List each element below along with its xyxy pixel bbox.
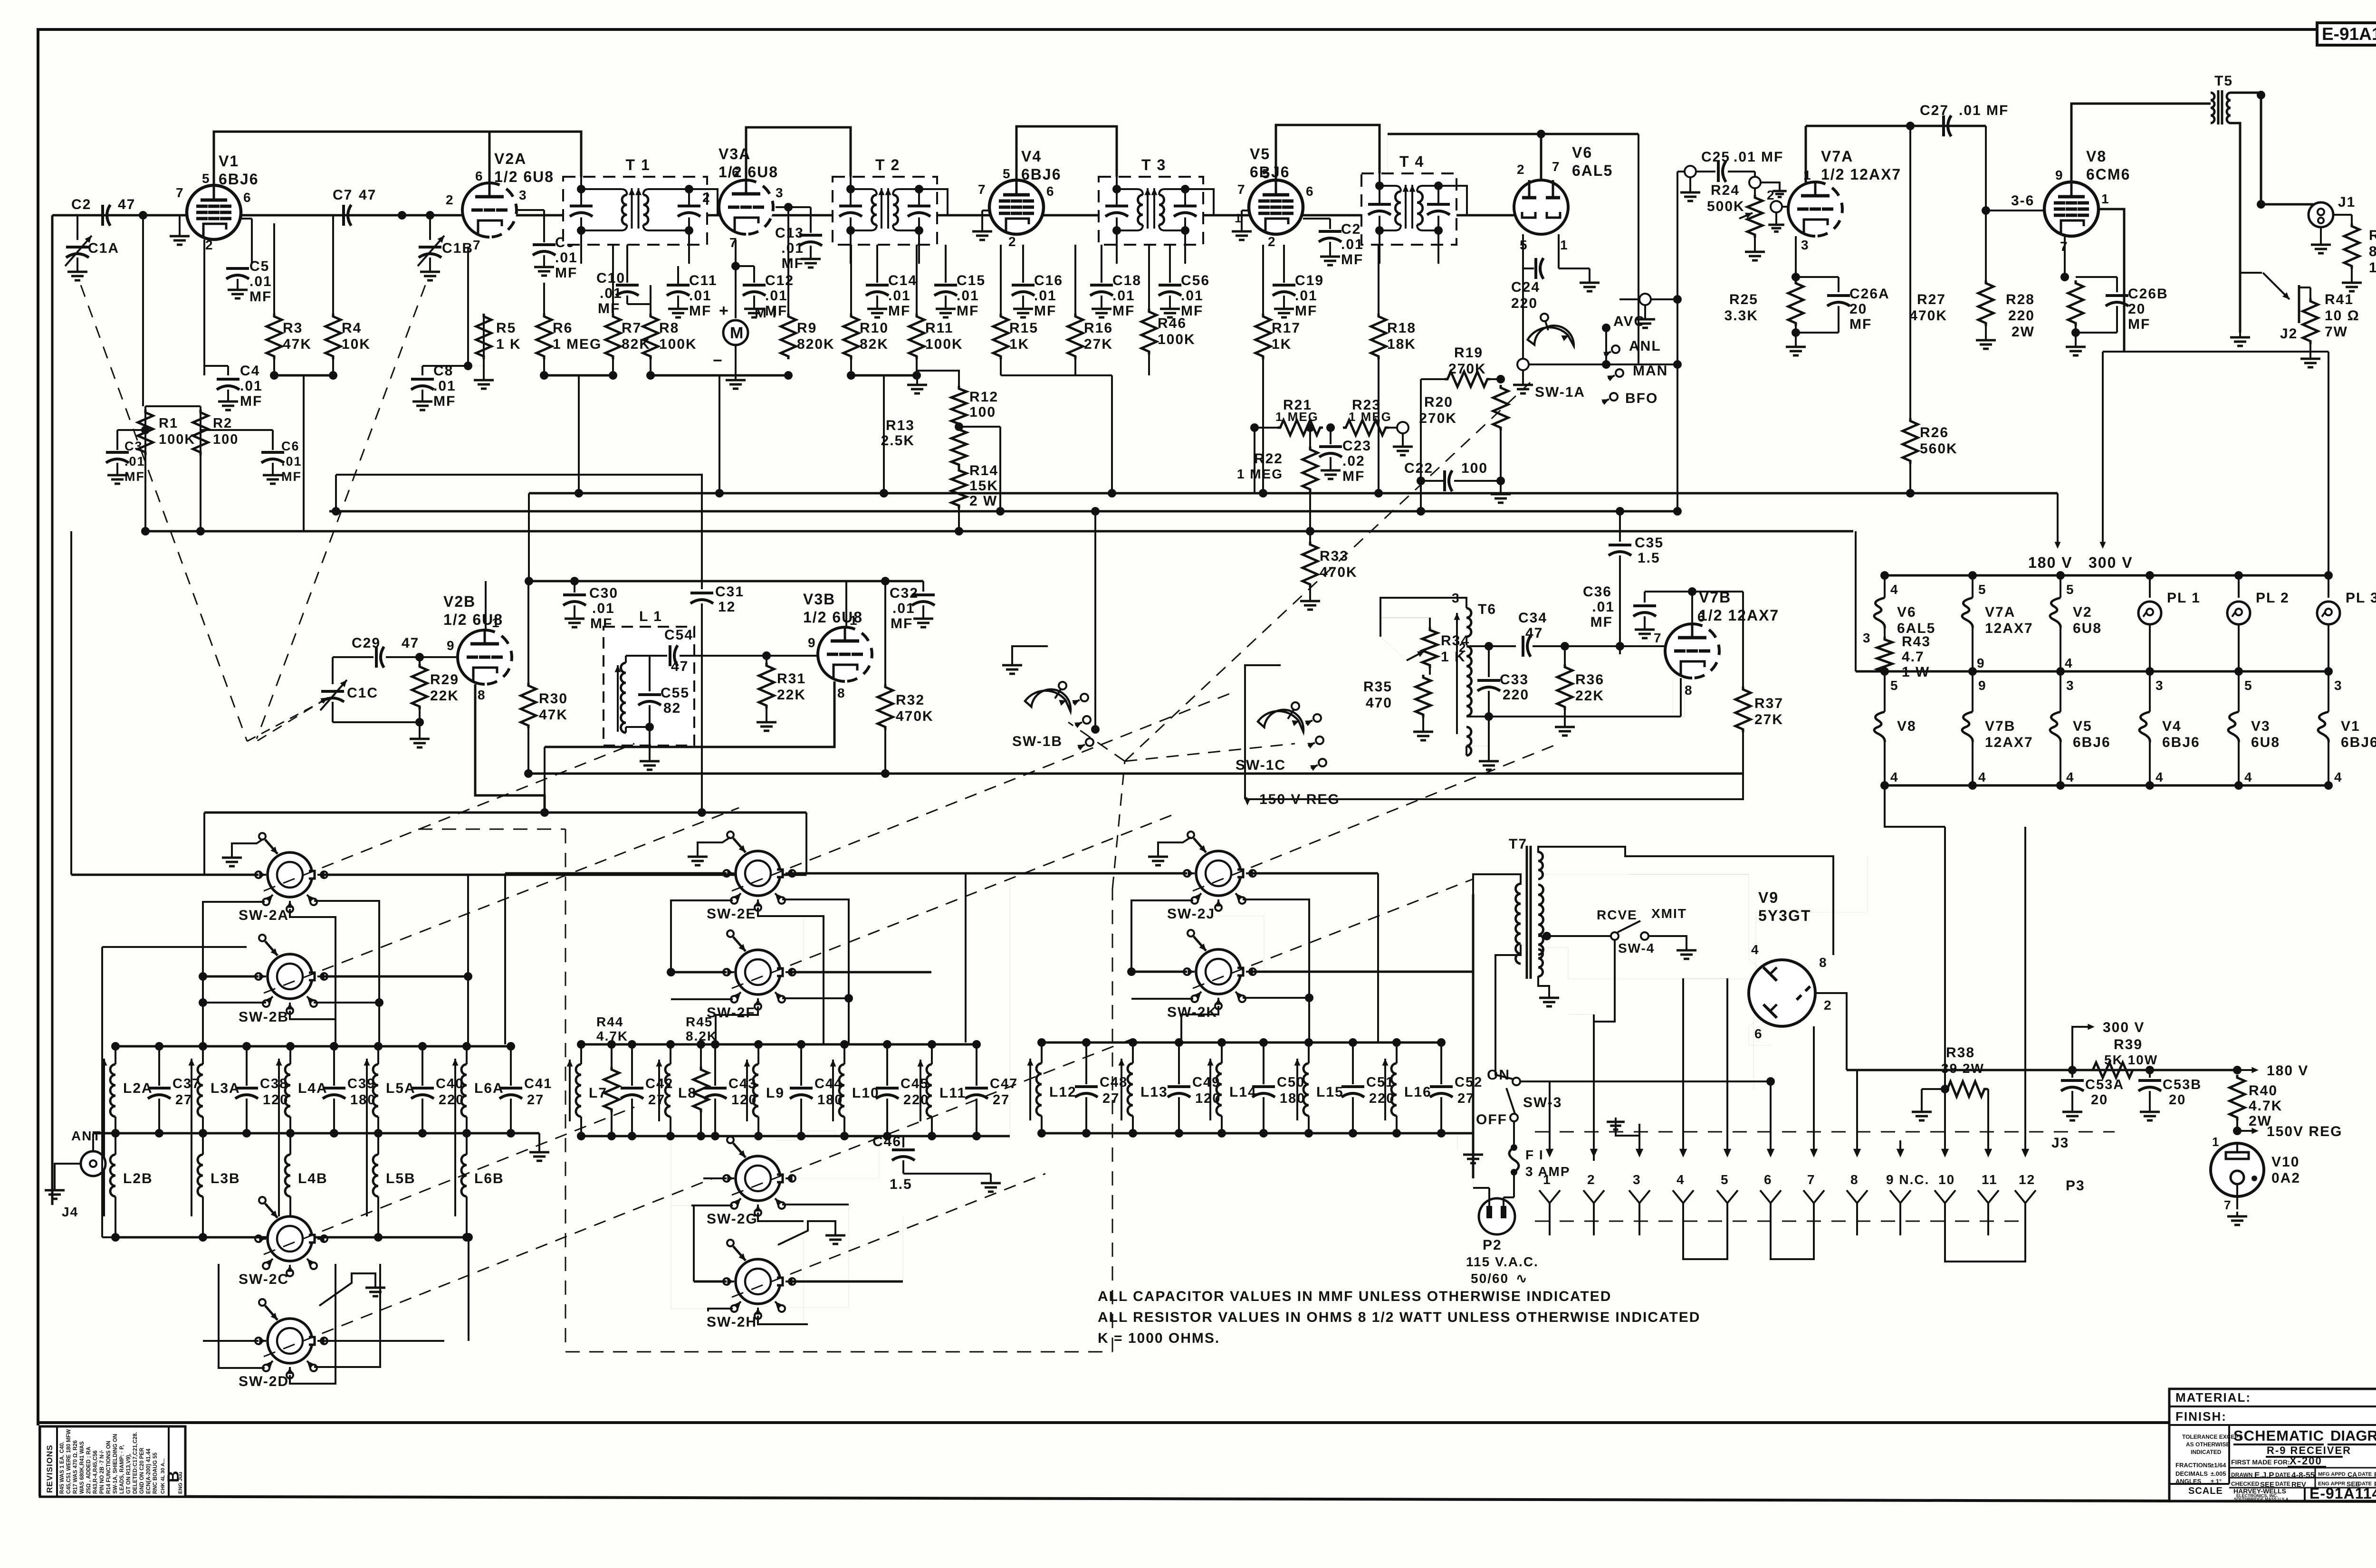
wire V3B cathode [545,681,834,747]
wire V2B plate riser [485,581,487,630]
svg-text:C11: C11 [689,273,717,288]
wire J3 dashed row [1535,1131,2115,1133]
wire V6 out to AVC switch [1529,363,1606,365]
svg-text:47: 47 [671,659,689,674]
capacitor C10 [626,245,628,283]
svg-text:12AX7: 12AX7 [1985,735,2033,750]
pilot lamp PL3 [2317,602,2340,624]
IF transformer T 1 [563,177,707,245]
bullseye shield on AVC line [1619,298,1677,300]
capacitor C43 [714,1044,716,1086]
wire T6 secondary bottom [1466,716,1489,717]
svg-text:27: 27 [175,1092,192,1108]
capacitor C41 [510,1046,512,1086]
wire ON bus [1520,1080,1771,1082]
svg-text:T 2: T 2 [875,156,900,173]
svg-text:.01: .01 [888,288,911,304]
svg-text:C51: C51 [1366,1075,1394,1090]
svg-text:20: 20 [2091,1092,2108,1108]
svg-text:C47: C47 [990,1076,1018,1091]
wire L1 bottom [625,727,627,733]
tube V2A half 6U8 [462,183,489,237]
wire middle bank top row [581,1043,977,1046]
svg-text:1.5: 1.5 [890,1176,912,1192]
wire right bank top row [1042,1042,1441,1044]
svg-text:SW-2E: SW-2E [707,906,756,922]
svg-text:PL 3: PL 3 [2346,590,2376,606]
wire SW-2K feeds [1131,971,1187,973]
resistor R17 [1262,245,1264,314]
resistor R43 output [2333,214,2352,216]
wire V7A cathode [1795,236,1797,277]
svg-text:4.7: 4.7 [1902,649,1925,665]
svg-text:3: 3 [1633,1172,1641,1187]
svg-text:82: 82 [663,700,681,716]
svg-text:180 V: 180 V [2267,1063,2309,1079]
wire heater bus bottom [1885,784,2328,787]
wire V8 plate riser to T5 [2071,104,2211,182]
capacitor C16 [1022,245,1024,283]
svg-text:R9: R9 [797,320,817,336]
svg-text:100: 100 [969,404,996,420]
svg-text:5: 5 [2244,678,2253,693]
resistor R26 [1903,418,1918,464]
svg-text:R28: R28 [2006,292,2035,307]
svg-text:27: 27 [1457,1091,1475,1106]
resistor R36 [1564,646,1566,664]
svg-text:5: 5 [1003,166,1011,181]
svg-text:F I: F I [1525,1147,1544,1162]
tube V7A half 12AX7 [1788,182,1815,236]
wire heater column [1972,575,1974,598]
svg-text:SW-2D: SW-2D [239,1374,289,1389]
wire middle bank bottom bus [581,1135,1010,1138]
svg-text:.01: .01 [600,286,623,301]
wire antenna input vertical [51,215,54,1205]
switch wafer SW-2E [736,851,780,896]
capacitor C25 [1685,166,1696,177]
svg-text:27K: 27K [1084,336,1113,352]
heater V8 [1874,712,1885,742]
terminal 3 J3 arrow [1638,1124,1640,1154]
resistor R15 [1000,245,1002,314]
capacitor C44 [800,1044,802,1086]
svg-text:.01: .01 [555,250,578,266]
svg-text:V1: V1 [219,153,239,170]
svg-text:1K: 1K [1009,336,1029,352]
drawing number box top right E-91A1144 [2317,23,2376,45]
wire L1 to V3B grid [694,655,818,657]
svg-text:SW-3: SW-3 [1523,1095,1562,1110]
svg-text:3: 3 [2066,678,2075,693]
svg-text:9 N.C.: 9 N.C. [1886,1172,1929,1187]
wire heater column [2060,575,2061,598]
resistor R45 [700,1044,702,1067]
svg-text:.01: .01 [1592,599,1615,615]
svg-text:1 W: 1 W [2369,260,2376,276]
svg-text:300 V: 300 V [2089,554,2133,571]
svg-text:V2: V2 [2073,604,2092,620]
resistor R16 [1074,245,1076,314]
svg-text:R19: R19 [1454,345,1483,361]
svg-text:C14: C14 [888,273,917,288]
svg-text:MF: MF [433,393,456,409]
svg-text:AS OTHERWISE: AS OTHERWISE [2186,1441,2230,1448]
IF transformer T 2 [833,177,937,245]
wire V5 plate riser [1276,125,1380,180]
svg-text:47K: 47K [283,336,312,352]
wire SW-2H feeds [694,1281,727,1283]
title block [2169,1389,2376,1501]
inductor L4A [289,1046,291,1064]
terminal 4 J3 arrow [1682,978,1684,1154]
svg-text:MF: MF [2128,316,2150,332]
svg-text:22K: 22K [430,688,459,704]
svg-text:V7A: V7A [1985,604,2015,620]
svg-text:3: 3 [1801,238,1810,252]
switch wafer SW-2B [268,954,312,999]
terminal 9 P3 contact [1890,1190,1911,1203]
wire V8 cathode pin7 [2064,236,2066,277]
tube V7B half 12AX7 [1665,624,1692,678]
svg-text:R18: R18 [1387,320,1416,336]
svg-text:±1/64: ±1/64 [2211,1462,2226,1469]
wire R25 C26A bottoms [1795,326,1797,333]
svg-text:MF: MF [888,303,910,319]
wire coil bank bottom bus [93,1132,539,1135]
wire tuning slug arrow [191,1059,192,1216]
jack J2 with spring contact [2240,272,2262,274]
svg-text:7: 7 [473,238,481,252]
resistor R1 [144,406,146,531]
resistor R5 [483,314,485,366]
svg-text:27: 27 [1102,1091,1120,1106]
capacitor C22 [1443,470,1446,491]
wire SW-2J feed [966,872,1187,875]
svg-text:7: 7 [1654,631,1662,645]
svg-text:SW-1C: SW-1C [1236,757,1286,773]
wire R34 top link [1380,637,1407,660]
svg-text:J3: J3 [2051,1135,2069,1151]
wire V3A plate riser [746,127,851,180]
svg-text:C31: C31 [715,584,744,600]
svg-text:270K: 270K [1448,361,1486,377]
svg-text:C37: C37 [172,1076,201,1091]
svg-text:.01 MF: .01 MF [1959,103,2009,118]
svg-text:4: 4 [2244,770,2253,784]
svg-text:ALL CAPACITOR VALUES IN MMF UN: ALL CAPACITOR VALUES IN MMF UNLESS OTHER… [1098,1289,1611,1304]
svg-text:6BJ6: 6BJ6 [2162,735,2200,750]
svg-text:3: 3 [2156,678,2164,693]
svg-text:C29: C29 [352,635,381,651]
svg-text:C24: C24 [1511,279,1540,295]
svg-text:470: 470 [1366,695,1392,711]
terminal 7 P3 contact [1803,1190,1824,1203]
capacitor C45 [886,1044,888,1086]
svg-text:BFO: BFO [1625,391,1658,406]
svg-text:−: − [713,352,723,370]
capacitor C15 [945,245,947,283]
svg-text:V5: V5 [2073,718,2092,734]
svg-text:MF: MF [1849,316,1872,332]
svg-text:C30: C30 [589,585,618,601]
resistor R21 [1255,427,1277,429]
svg-text:3-6: 3-6 [2011,193,2034,209]
wire T5 secondary leads [2231,92,2261,94]
svg-text:300 V: 300 V [2103,1020,2145,1035]
capacitor C9 [517,209,544,211]
wire R13 tap [959,426,1000,428]
small ground near R24 top [1761,182,1780,188]
wire SW-2D row [468,1237,469,1341]
svg-text:V6: V6 [1897,604,1916,620]
svg-text:C26A: C26A [1849,286,1890,302]
svg-text:FIRST MADE FOR:: FIRST MADE FOR: [2231,1458,2290,1466]
tube V4 6BJ6 [989,180,1044,234]
wire V7B cathode [1489,678,1685,717]
svg-text:SW-2F: SW-2F [707,1005,756,1021]
pilot lamp PL2 [2227,602,2250,624]
svg-text:22K: 22K [1575,688,1604,704]
svg-text:4: 4 [2065,656,2073,670]
svg-text:270K: 270K [1419,411,1457,426]
wire SW-2E feed [505,872,727,875]
resistor R28 [2065,277,2076,277]
svg-text:R38: R38 [1946,1045,1975,1061]
capacitor C7 [342,205,345,226]
svg-text:C32: C32 [890,585,919,601]
svg-text:PL 2: PL 2 [2256,590,2290,606]
resistor R14 [951,468,967,508]
bottom frame line [38,1421,2169,1424]
capacitor C42 [631,1044,633,1086]
svg-text:C38: C38 [260,1076,288,1091]
svg-text:V1: V1 [2341,718,2360,734]
svg-text:C4: C4 [240,363,260,379]
inductor L3A [202,1046,204,1064]
svg-text:R3: R3 [283,320,303,336]
svg-text:CHK 4L 30 A...: CHK 4L 30 A... [160,1458,166,1494]
terminal 9 J3 arrow [1899,1140,1901,1154]
svg-text:MF: MF [891,616,913,631]
capacitor C33 [1466,645,1489,647]
svg-text:6U8: 6U8 [2073,621,2102,636]
svg-text:6: 6 [1306,184,1314,199]
svg-text:R31: R31 [777,671,806,687]
capacitor C39 [333,1046,335,1086]
svg-text:C56: C56 [1181,273,1210,288]
svg-text:R43: R43 [1902,634,1931,650]
wire dashed shaft SW-2K [1193,879,1473,988]
svg-text:100K: 100K [159,432,195,447]
meter M1 [735,240,737,318]
svg-text:SW-2G: SW-2G [707,1211,758,1227]
wire OFF to fuse [1513,1121,1515,1144]
capacitor C47 [976,1044,977,1086]
svg-text:R40: R40 [2249,1083,2278,1099]
svg-text:8: 8 [1819,955,1828,970]
svg-text:2 W: 2 W [969,493,997,509]
wire t2 top [1568,1014,1594,1015]
wire dashed shaft SW-2D [264,1178,713,1357]
svg-text:ECN(A-200) 41.44: ECN(A-200) 41.44 [146,1448,152,1494]
svg-text:R2: R2 [213,416,232,431]
svg-text:1 MEG: 1 MEG [1237,467,1283,481]
svg-text:5K 10W: 5K 10W [2104,1052,2158,1067]
heater V4 [2139,712,2150,742]
svg-text:LEADS, RAMP: · P,: LEADS, RAMP: · P, [119,1445,125,1494]
wire B+ bus 180V [303,375,304,531]
junction dot C2 out [139,211,147,220]
svg-text:MF: MF [281,469,302,484]
svg-text:6: 6 [1754,1026,1763,1041]
svg-text:MF: MF [125,469,145,484]
ground SW-2J [1158,837,1191,852]
wire tuning slug arrow [103,1059,105,1216]
svg-text:5: 5 [202,171,211,186]
svg-text:1/2 6U8: 1/2 6U8 [719,163,778,181]
svg-text:47K: 47K [539,707,568,723]
heater V1 [2318,712,2328,742]
svg-text:V6: V6 [1572,144,1592,161]
inductor L14 [1221,1042,1223,1063]
wire power section left vertical [1472,894,1475,1178]
tube V1 6BJ6 [187,185,241,239]
svg-text:MF: MF [1341,252,1363,268]
svg-text:C41: C41 [524,1076,552,1091]
svg-text:500K: 500K [1707,199,1745,214]
svg-text:6CM6: 6CM6 [2086,166,2130,183]
wire V9 pin8 top [1833,912,1834,955]
svg-text:R5: R5 [496,320,516,336]
svg-text:82K: 82K [860,336,889,352]
wire V3B plate riser [845,581,847,627]
wire cathode bus down [544,747,546,813]
wire 300V drop arrow [2102,352,2104,545]
svg-text:1: 1 [850,613,858,628]
svg-text:R15: R15 [1009,320,1038,336]
inductor L6B [466,1133,468,1155]
svg-text:R12: R12 [969,389,998,405]
capacitor C51 [1352,1042,1354,1084]
wire ganged tuning dashes vertex [247,695,335,741]
svg-text:.02: .02 [1342,453,1365,469]
svg-text:1.5: 1.5 [1638,550,1660,566]
svg-text:R34: R34 [1441,633,1470,649]
inductor L11 [931,1044,933,1064]
tube V6 6AL5 [1514,180,1568,234]
svg-text:ANT: ANT [71,1128,102,1143]
inductor L2A [115,1046,116,1064]
capacitor C36 [1644,592,1646,602]
svg-text:6BJ6: 6BJ6 [219,171,259,188]
svg-text:.01: .01 [892,601,915,616]
title block signature rows [2229,1467,2376,1469]
wire V8 grid 3-6 [1986,210,2044,211]
svg-text:C5: C5 [249,258,269,274]
svg-text:4: 4 [1677,1172,1685,1187]
wire SW-2J lower [1131,900,1193,972]
wire C1A dashes to ganged tuning [81,285,247,741]
tube V2B half 6U8 [458,630,485,684]
svg-text:R24: R24 [1711,182,1740,198]
svg-text:FINISH:: FINISH: [2175,1409,2227,1424]
svg-text:2: 2 [1587,1172,1596,1187]
terminal 2 J3 arrow [1593,1014,1595,1154]
svg-text:OFF: OFF [1476,1112,1507,1128]
svg-text:.01: .01 [765,288,788,304]
svg-text:XMIT: XMIT [1651,906,1687,921]
wire SW-2E lower contacts [671,900,733,972]
svg-text:4: 4 [1890,582,1899,597]
svg-text:12: 12 [2019,1172,2035,1187]
resistor R38 [1922,1088,1945,1090]
wire bank2 bus right up [1009,873,1010,1136]
svg-text:.01: .01 [1112,288,1135,304]
contact BFO [1610,393,1618,401]
capacitor C14 [876,245,878,283]
svg-text:R20: R20 [1424,394,1453,410]
terminal 3 P3 contact [1629,1190,1650,1203]
wire heater column [2328,575,2329,598]
svg-text:R16: R16 [1084,320,1113,336]
svg-text:C19: C19 [1295,273,1324,288]
svg-text:R26: R26 [1920,425,1949,440]
svg-text:MF: MF [249,289,272,305]
svg-text:M: M [730,324,743,342]
svg-text:V8: V8 [1897,718,1916,734]
svg-text:V4: V4 [1021,148,1042,165]
svg-text:4: 4 [1978,770,1987,784]
resistor R31 [766,656,767,663]
svg-text:C52: C52 [1455,1075,1483,1090]
svg-text:R35: R35 [1363,679,1392,695]
svg-text:MF: MF [240,393,262,409]
wire SW-2G feeds [703,1177,727,1179]
svg-text:MF: MF [1112,303,1135,319]
svg-text:27K: 27K [1754,712,1783,727]
svg-text:.01: .01 [781,240,804,256]
svg-text:C33: C33 [1500,672,1529,688]
svg-text:20: 20 [2169,1092,2186,1108]
capacitor C49 [1178,1042,1180,1084]
svg-text:47: 47 [118,197,135,212]
svg-text:R36: R36 [1575,672,1604,688]
svg-text:MF: MF [765,303,787,319]
heater V6 [1874,598,1885,628]
svg-text:L11: L11 [939,1085,966,1101]
svg-text:6: 6 [475,169,484,183]
svg-text:C7: C7 [333,187,353,203]
svg-text:10K: 10K [342,336,371,352]
inductor L13 [1132,1042,1134,1063]
inductor L4B [289,1133,291,1155]
svg-text:180: 180 [1280,1091,1305,1106]
svg-text:1/2 12AX7: 1/2 12AX7 [1821,166,1901,183]
svg-text:C48: C48 [1100,1075,1128,1090]
svg-text:1: 1 [1560,238,1569,252]
wire T7 HV top to V9 plate [1538,847,1833,955]
wire V9 pin6 lower [1749,1019,1771,1045]
svg-text:3.3K: 3.3K [1725,308,1758,324]
svg-text:470K: 470K [1909,308,1947,324]
wire terminal jumpers [1683,1235,1727,1259]
tube V3A half 6U8 [719,180,746,234]
svg-text:MF: MF [1034,303,1056,319]
switch wafer SW-2H [736,1259,780,1304]
svg-text:22K: 22K [777,687,806,703]
resistor R44 [611,1044,613,1067]
